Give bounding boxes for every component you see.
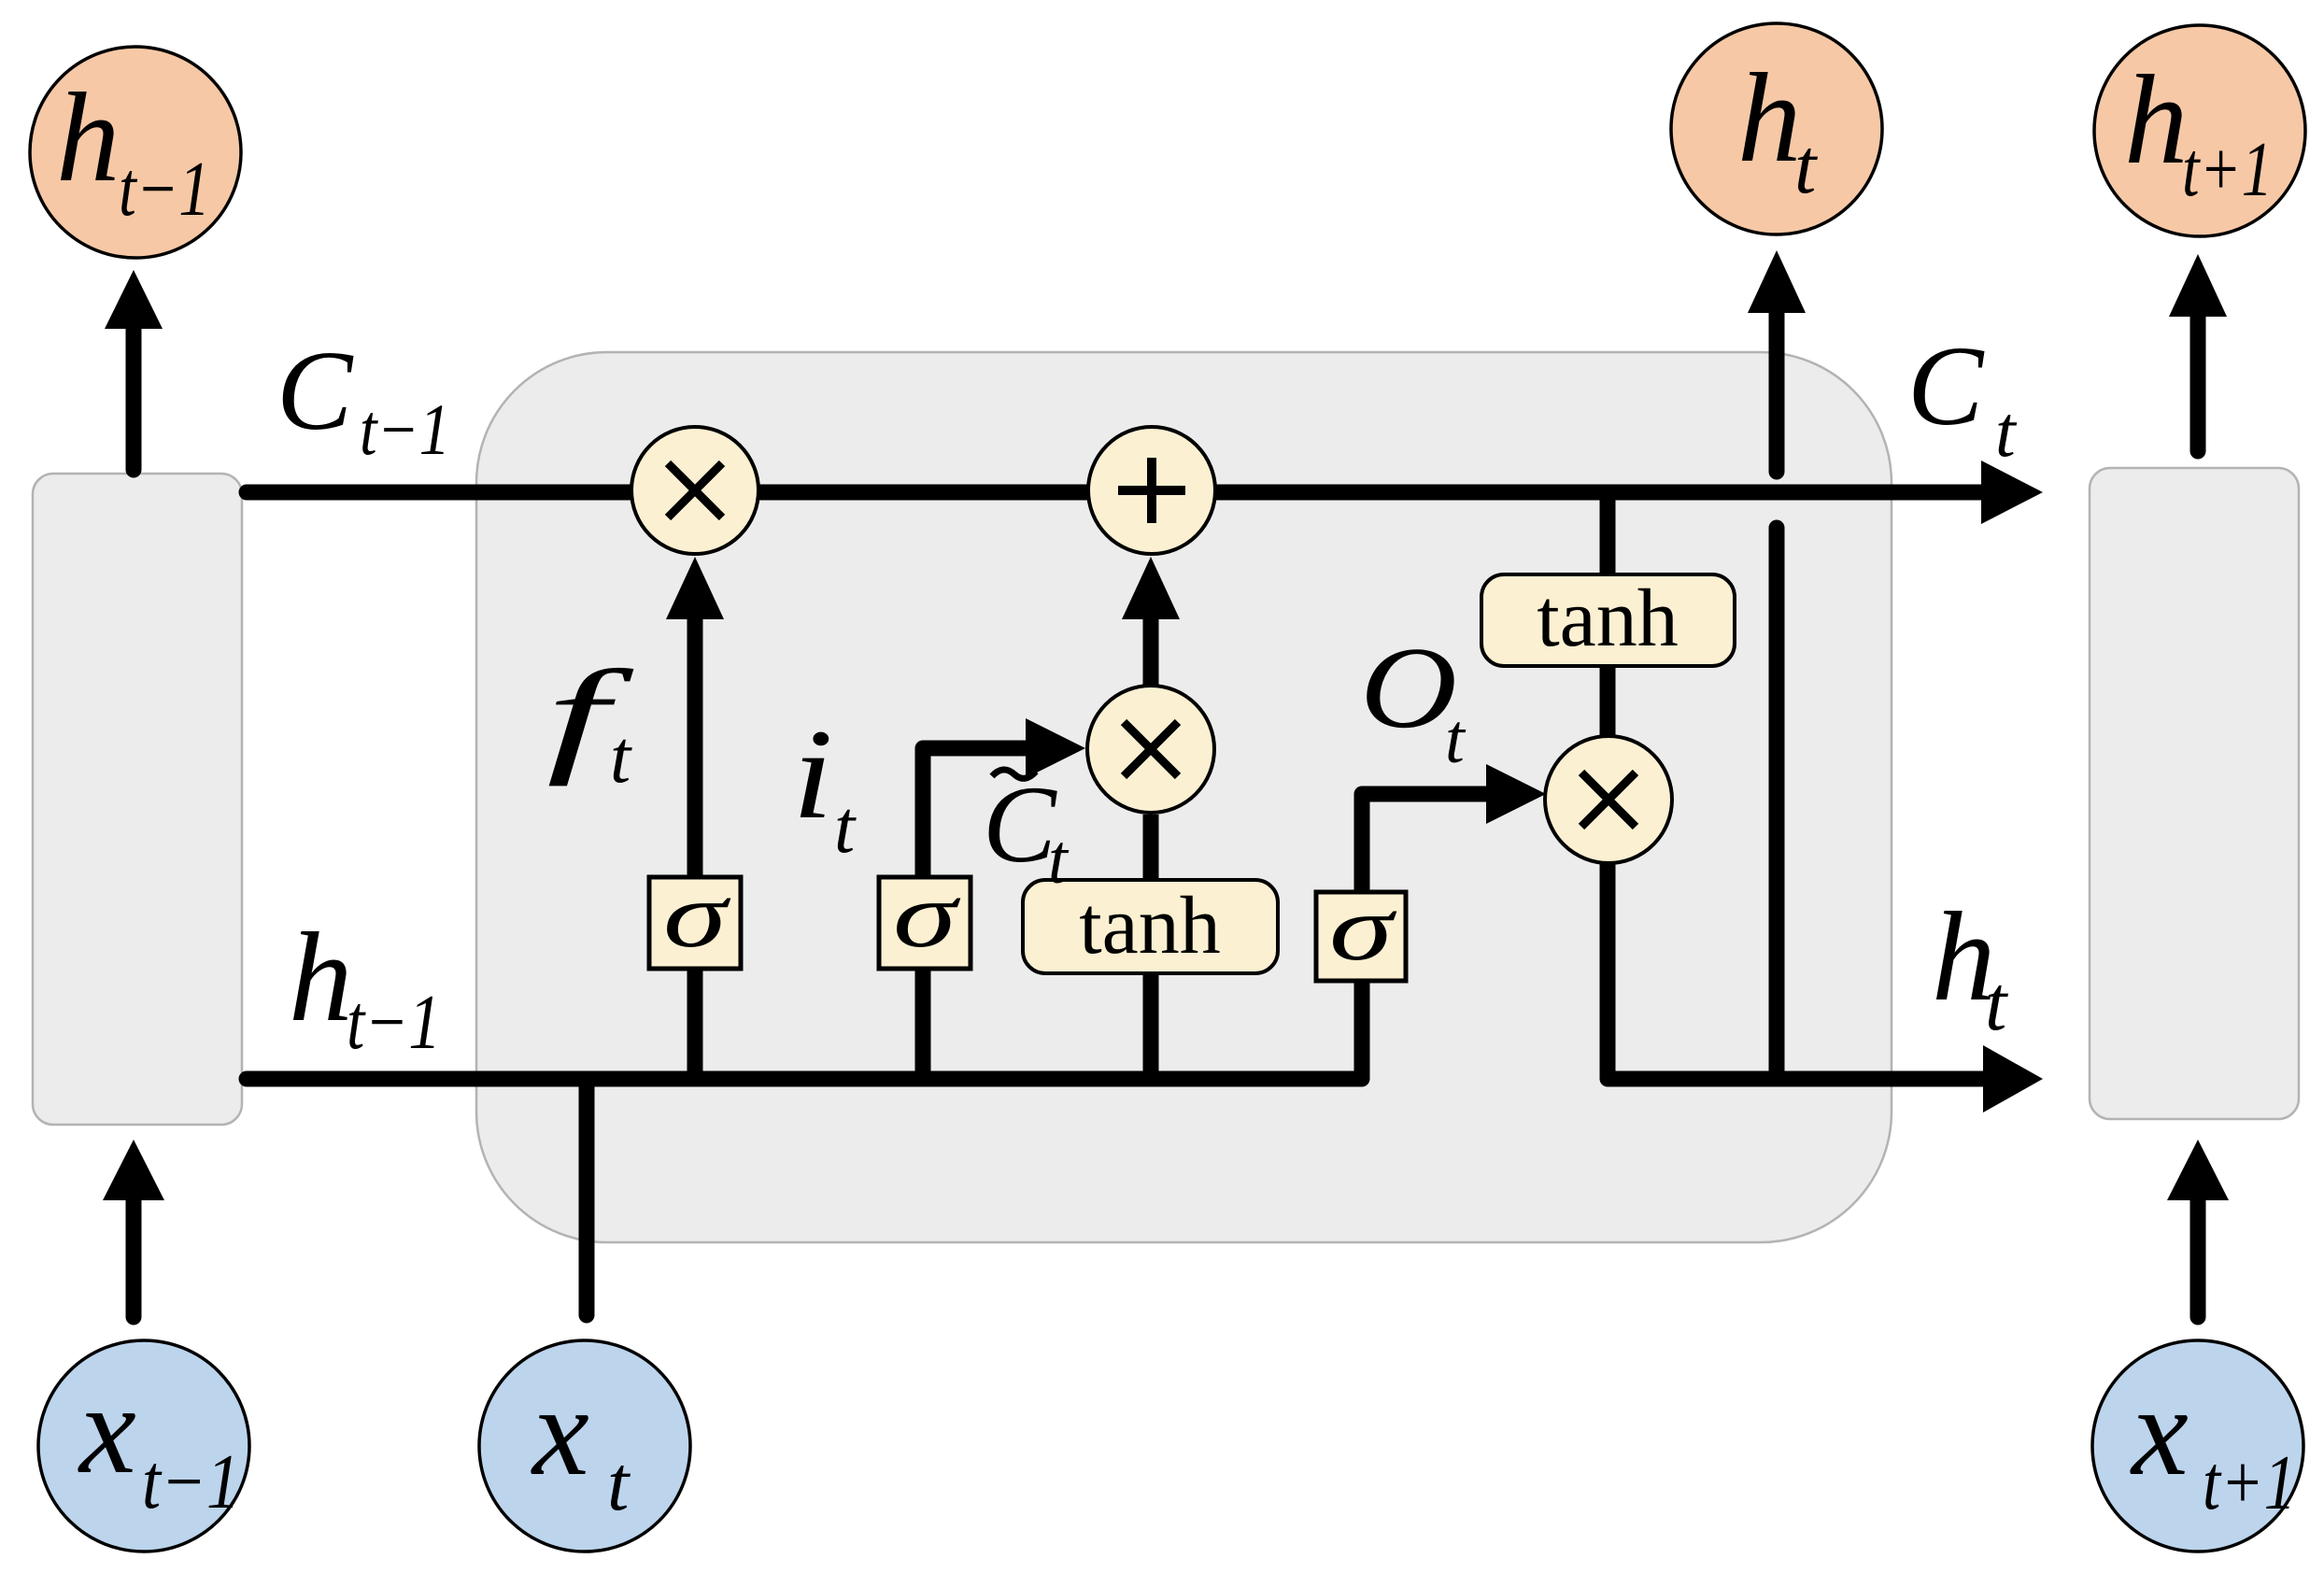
input gate sigma box bbox=[879, 863, 971, 969]
svg-text:t+1: t+1 bbox=[2203, 1439, 2296, 1526]
wire x(t+1) up into right block bbox=[2190, 1197, 2206, 1317]
wire right block up to h(t+1) node bbox=[2190, 315, 2206, 451]
svg-text:x: x bbox=[531, 1360, 589, 1502]
output gate sigma box bbox=[1316, 876, 1406, 981]
arrowhead x(t-1) into left block bbox=[103, 1140, 164, 1200]
svg-text:t: t bbox=[607, 1440, 631, 1527]
svg-text:tanh: tanh bbox=[1537, 574, 1679, 664]
arrowhead f(t) into multiply bbox=[666, 557, 724, 619]
wire output multiply down and right to h(t) output bbox=[1608, 859, 1986, 1079]
svg-text:h: h bbox=[289, 906, 353, 1048]
node h(t-1) bbox=[30, 47, 241, 258]
arrowhead C(t) output bbox=[1981, 461, 2043, 524]
wire tanh to output multiply bbox=[1600, 663, 1616, 740]
svg-text:x: x bbox=[78, 1358, 136, 1500]
svg-text:i: i bbox=[792, 702, 833, 845]
svg-text:t: t bbox=[1794, 123, 1819, 210]
plus op on C line bbox=[1088, 427, 1215, 554]
node x(t-1) bbox=[38, 1340, 249, 1552]
previous LSTM cell (left gray block) bbox=[33, 474, 242, 1125]
node h(t) bbox=[1671, 23, 1882, 234]
label h(t-1) on wire bbox=[289, 906, 441, 1066]
svg-text:t: t bbox=[1985, 960, 2009, 1047]
arrowhead into h(t+1) node bbox=[2169, 254, 2227, 317]
svg-text:h: h bbox=[56, 66, 120, 208]
wire x(t-1) up into left block bbox=[126, 1197, 142, 1317]
wire candidate tanh riser bbox=[1143, 815, 1159, 1079]
svg-text:σ: σ bbox=[1329, 876, 1397, 980]
wire h(t) branch riser upper segment bbox=[1769, 313, 1785, 472]
arrowhead into h(t) node bbox=[1748, 250, 1806, 313]
svg-text:t: t bbox=[610, 716, 632, 799]
next LSTM cell (right gray block) bbox=[2090, 468, 2299, 1119]
svg-text:t: t bbox=[1995, 390, 2018, 472]
label O(t) bbox=[1360, 624, 1467, 778]
svg-text:h: h bbox=[1737, 47, 1802, 189]
wire h(t) branch riser lower segment bbox=[1769, 528, 1785, 1079]
output tanh box bbox=[1481, 574, 1735, 666]
wire input gate riser with elbow bbox=[923, 748, 1028, 1079]
svg-text:t−1: t−1 bbox=[347, 979, 441, 1066]
label C(t) bbox=[1907, 323, 2018, 472]
wire forget gate riser bbox=[687, 616, 703, 1079]
forget gate sigma box bbox=[649, 863, 741, 969]
label i(t) bbox=[792, 702, 857, 869]
arrowhead x(t+1) into right block bbox=[2167, 1140, 2229, 1200]
svg-text:tanh: tanh bbox=[1079, 881, 1221, 971]
arrowhead O(t) into multiply bbox=[1486, 764, 1546, 824]
svg-text:t: t bbox=[1048, 821, 1070, 899]
wire multiply to plus riser bbox=[1143, 616, 1159, 687]
multiply op output gate bbox=[1545, 736, 1672, 863]
arrowhead i(t) into multiply bbox=[1026, 718, 1085, 778]
arrowhead candidate into plus bbox=[1122, 557, 1180, 619]
label f(t) bbox=[546, 644, 635, 799]
svg-text:t+1: t+1 bbox=[2182, 126, 2273, 213]
node x(t) bbox=[479, 1340, 690, 1552]
svg-text:C: C bbox=[983, 763, 1057, 886]
wire h(t-1) input line with turn up into output sigma bbox=[247, 794, 1489, 1079]
label C-tilde(t) bbox=[983, 763, 1070, 899]
svg-text:σ: σ bbox=[663, 863, 731, 967]
svg-text:h: h bbox=[2124, 49, 2189, 191]
label C(t-1) bbox=[276, 328, 450, 470]
svg-text:t−1: t−1 bbox=[142, 1438, 240, 1525]
svg-text:C: C bbox=[276, 328, 354, 454]
multiply op input x candidate bbox=[1087, 686, 1214, 813]
wire x(t) input riser bbox=[579, 1079, 595, 1315]
wire C line branch down to tanh bbox=[1600, 500, 1616, 577]
wire multiply to plus bbox=[757, 485, 1089, 501]
label h(t) on wire bbox=[1932, 886, 2009, 1047]
svg-text:t−1: t−1 bbox=[360, 389, 450, 470]
arrowhead h(t) output bbox=[1983, 1045, 2043, 1112]
svg-text:t−1: t−1 bbox=[119, 146, 210, 233]
arrowhead into h(t-1) node bbox=[105, 270, 163, 329]
wire C(t-1) into multiply bbox=[247, 485, 633, 501]
svg-text:O: O bbox=[1360, 624, 1457, 753]
candidate tanh box bbox=[1023, 880, 1278, 973]
svg-text:x: x bbox=[2130, 1360, 2189, 1502]
wire left block up to h(t-1) node bbox=[126, 327, 142, 470]
node x(t+1) bbox=[2092, 1340, 2303, 1552]
LSTM cell body bbox=[476, 352, 1892, 1242]
svg-text:σ: σ bbox=[893, 863, 961, 967]
multiply op on C line bbox=[631, 427, 758, 554]
node h(t+1) bbox=[2094, 25, 2305, 236]
svg-text:t: t bbox=[1445, 701, 1467, 778]
svg-text:t: t bbox=[834, 786, 857, 869]
svg-text:C: C bbox=[1907, 323, 1985, 449]
wire plus to C(t) output bbox=[1213, 485, 1984, 501]
